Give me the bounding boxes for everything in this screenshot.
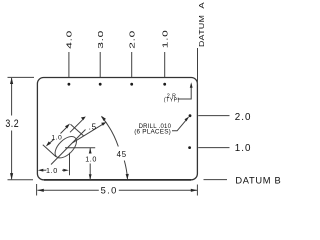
svg-text:1.0: 1.0 [235,143,252,154]
arrow 5.0 right [191,189,198,192]
3.2 top extension line [8,76,35,78]
hole top 1.0 [163,83,166,86]
hole top 3.0 [99,83,102,86]
slanted 1.0 upper extension line [71,124,84,136]
vertical 1.0 dimension line [89,148,91,153]
arrow 45 arc bottom [126,174,129,180]
svg-text:45: 45 [117,150,127,159]
arrow 1.0 horiz left [38,169,44,172]
arrow 3.2 top [10,78,13,85]
slot horizontal leg [65,147,95,149]
3.2 bottom extension line [8,179,34,181]
2.0 hole leader [198,115,229,117]
arrow 3.2 bottom [10,173,13,180]
svg-text:1.0: 1.0 [46,166,58,175]
svg-text:(6 PLACES): (6 PLACES) [134,129,171,136]
svg-text:A: A [197,2,206,9]
.2 R leader [178,85,192,100]
svg-text:2.0: 2.0 [235,112,252,123]
slanted 1.0 dimension line [47,139,54,145]
datum B leader [204,179,228,181]
svg-text:.5: .5 [89,122,97,131]
arrowheads [10,78,197,192]
arrow 1.0 horiz right [63,169,69,172]
svg-text:1.0: 1.0 [85,154,97,163]
5.0 right extension line [196,185,198,196]
wire leader 1.0 [164,52,166,77]
drill note leader [172,120,186,131]
svg-text:2.0: 2.0 [129,30,137,49]
arrow 45 arc top [101,116,106,121]
svg-text:1.0: 1.0 [51,135,62,142]
arrow .2R [190,82,193,88]
slot axis centerline [51,130,86,165]
5.0 left extension line [36,184,38,196]
wire leader 3.0 [99,52,101,77]
svg-text:4.0: 4.0 [66,30,74,49]
arrow slanted 1.0 upper [65,124,70,129]
svg-text:5.0: 5.0 [101,186,118,196]
plate outline [37,78,197,180]
slot vertical centerline [69,153,71,176]
arrow 5.0 left [37,189,44,192]
hole right 2.0 [189,114,192,117]
arrow slanted 1.0 lower [46,141,51,146]
.5 dimension line A [70,118,84,132]
.5 leader line B [73,124,104,143]
hole top 2.0 [130,83,133,86]
svg-text:DATUM B: DATUM B [235,175,281,185]
wire leader 2.0 [131,52,133,77]
arrow .5 upper [81,117,86,121]
hole top 4.0 [68,83,71,86]
svg-text:DATUM: DATUM [197,15,205,47]
arrow drill [185,116,190,121]
slanted 1.0 lower extension line [43,145,56,157]
svg-text:3.2: 3.2 [5,118,19,130]
arrow 1.0 vert bottom [89,174,92,180]
45 angle arc [124,161,127,179]
bottom edge emphasis [44,179,191,181]
3.2 dimension line [11,78,13,116]
svg-text:1.0: 1.0 [162,29,170,48]
arrow .5 leader [101,122,106,126]
datum A leader [197,48,199,85]
slot ellipse [51,133,80,162]
hole dots [68,83,192,149]
horizontal 1.0 dimension line [43,169,47,171]
wire leader 4.0 [68,52,70,77]
hole right 1.0 [188,146,191,149]
svg-text:3.0: 3.0 [97,30,105,49]
5.0 dimension line [37,189,98,191]
arrow 1.0 vert top [89,148,92,154]
svg-text:(TYP): (TYP) [164,97,180,103]
1.0 hole leader [198,147,229,149]
